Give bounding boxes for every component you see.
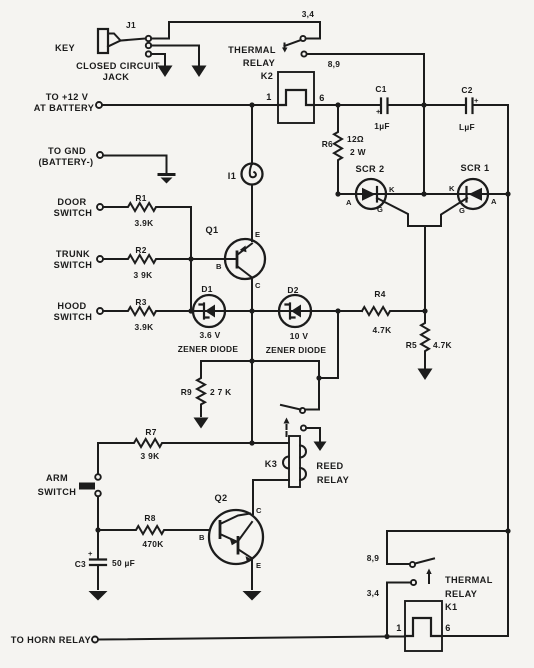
svg-text:+: + xyxy=(88,549,93,558)
wire arm switch top xyxy=(97,443,99,474)
svg-text:G: G xyxy=(459,206,465,215)
wire K1 8,9 contact to rail xyxy=(387,531,508,564)
svg-text:HOOD: HOOD xyxy=(57,301,86,311)
K1 contact 3,4 xyxy=(411,580,416,585)
capacitor C3 xyxy=(88,549,106,565)
svg-text:I1: I1 xyxy=(228,171,236,181)
svg-text:470K: 470K xyxy=(142,539,163,549)
connector J1 closed-circuit jack xyxy=(98,29,146,53)
node zener bottom line xyxy=(249,358,254,363)
svg-text:KEY: KEY xyxy=(55,43,75,53)
transistor Q1 xyxy=(225,239,265,279)
svg-text:3.9K: 3.9K xyxy=(135,322,154,332)
svg-text:10 V: 10 V xyxy=(290,331,309,341)
node K2 8,9 tap xyxy=(421,102,426,107)
svg-text:D2: D2 xyxy=(287,285,298,295)
ground xyxy=(89,591,108,601)
svg-text:Q1: Q1 xyxy=(205,225,218,235)
ground xyxy=(158,175,176,184)
wire K3 coil low side to Q2 collector xyxy=(253,480,289,514)
svg-text:K1: K1 xyxy=(445,602,458,612)
K3 actuator arrow dashed xyxy=(284,418,290,437)
ground xyxy=(158,66,173,78)
wire zener row line xyxy=(193,310,362,312)
resistor R5 xyxy=(421,311,429,369)
svg-text:6: 6 xyxy=(445,623,451,633)
svg-text:3,4: 3,4 xyxy=(367,588,380,598)
svg-text:RELAY: RELAY xyxy=(445,589,477,599)
svg-text:50 µF: 50 µF xyxy=(112,558,135,568)
svg-text:R4: R4 xyxy=(374,289,385,299)
wire to K3 reed contact xyxy=(306,378,320,410)
svg-text:3 9K: 3 9K xyxy=(141,451,160,461)
wire horn relay line xyxy=(98,636,508,640)
svg-text:SWITCH: SWITCH xyxy=(54,312,93,322)
wire arm switch to R8 node xyxy=(97,496,99,558)
K1 contact 8,9 xyxy=(410,562,415,567)
svg-text:RELAY: RELAY xyxy=(317,475,349,485)
svg-text:R6: R6 xyxy=(322,139,333,149)
svg-text:Q2: Q2 xyxy=(214,493,227,503)
relay K3 reed capsule xyxy=(283,436,306,487)
node SCR1 anode / rail xyxy=(505,191,510,196)
svg-text:E: E xyxy=(255,230,260,239)
wire K1 3,4 contact to horn line xyxy=(387,583,411,637)
K2 contact 3,4 xyxy=(300,36,305,41)
svg-text:8,9: 8,9 xyxy=(367,553,380,563)
svg-text:K: K xyxy=(449,184,455,193)
node SCR2 anode / R6 xyxy=(335,191,340,196)
svg-text:TO HORN RELAY: TO HORN RELAY xyxy=(11,635,91,645)
resistor R4 xyxy=(362,307,425,315)
node R7 K3 coil xyxy=(249,440,254,445)
svg-text:SCR 2: SCR 2 xyxy=(355,164,384,174)
jack contact tip xyxy=(146,36,151,41)
svg-text:12Ω: 12Ω xyxy=(347,134,364,144)
resistor R3 xyxy=(103,307,193,315)
svg-text:4.7K: 4.7K xyxy=(433,340,452,350)
wire Q2 emitter to ground xyxy=(251,559,253,589)
transistor Q2 darlington xyxy=(209,510,263,564)
svg-text:K: K xyxy=(389,185,395,194)
svg-text:3.9K: 3.9K xyxy=(135,218,154,228)
svg-text:J1: J1 xyxy=(126,20,136,30)
svg-text:R3: R3 xyxy=(135,297,146,307)
svg-text:2 7 K: 2 7 K xyxy=(210,387,232,397)
node bus R2 xyxy=(188,256,193,261)
ground xyxy=(194,418,209,429)
svg-text:R5: R5 xyxy=(406,340,417,350)
K1 actuator arrow xyxy=(426,569,431,584)
terminal DOOR SWITCH xyxy=(97,204,103,210)
svg-text:R9: R9 xyxy=(181,387,192,397)
svg-text:JACK: JACK xyxy=(103,72,130,82)
wire gate branch down-left xyxy=(319,311,338,378)
K2 actuator arrow xyxy=(282,44,288,53)
svg-text:(BATTERY-): (BATTERY-) xyxy=(38,157,93,167)
resistor R2 xyxy=(103,255,237,263)
K1 blade xyxy=(415,559,434,564)
svg-text:C2: C2 xyxy=(461,85,472,95)
svg-text:R1: R1 xyxy=(135,193,146,203)
svg-text:TO +12 V: TO +12 V xyxy=(46,92,89,102)
svg-text:CLOSED CIRCUIT: CLOSED CIRCUIT xyxy=(76,61,160,71)
svg-text:E: E xyxy=(256,561,261,570)
svg-text:THERMAL: THERMAL xyxy=(228,45,276,55)
wire jack tip to K2 contact 3,4 xyxy=(151,22,320,39)
svg-text:C1: C1 xyxy=(375,84,386,94)
wire +12V rail left xyxy=(102,104,278,106)
svg-text:RELAY: RELAY xyxy=(243,58,275,68)
K2 blade xyxy=(285,40,301,46)
node R8 C3 xyxy=(95,527,100,532)
svg-text:K2: K2 xyxy=(261,71,274,81)
svg-text:ZENER DIODE: ZENER DIODE xyxy=(178,344,239,354)
wire collector branch down xyxy=(251,311,253,443)
wire SCR anode-cathode line xyxy=(338,193,508,195)
svg-text:A: A xyxy=(491,197,497,206)
svg-text:+: + xyxy=(376,107,381,116)
svg-text:G: G xyxy=(377,205,383,214)
node rail tap xyxy=(505,528,510,533)
SCR thyristor SCR1 xyxy=(458,179,488,209)
svg-text:C3: C3 xyxy=(75,559,86,569)
svg-text:REED: REED xyxy=(316,461,343,471)
wire Q1 collector down xyxy=(251,278,253,312)
svg-text:1µF: 1µF xyxy=(374,121,390,131)
svg-text:ZENER DIODE: ZENER DIODE xyxy=(266,345,327,355)
relay K1 heater box xyxy=(405,601,442,651)
node bus R3 xyxy=(188,308,193,313)
ground xyxy=(418,369,433,381)
jack contact sleeve xyxy=(146,51,151,56)
svg-text:C: C xyxy=(255,281,261,290)
wire +12V rail mid xyxy=(314,105,508,636)
node K3 contact branch xyxy=(316,375,321,380)
capacitor C1 xyxy=(376,99,388,117)
wire C3 to ground xyxy=(97,566,99,590)
node K1 3,4 tap xyxy=(384,634,389,639)
node SCR cathodes xyxy=(421,191,426,196)
svg-text:K3: K3 xyxy=(265,459,278,469)
wire zener bottom line xyxy=(201,361,319,378)
svg-text:R2: R2 xyxy=(135,245,146,255)
resistor R8 xyxy=(98,526,209,534)
node Q1 collector xyxy=(249,308,254,313)
svg-text:1: 1 xyxy=(266,92,272,102)
node R4 R5 gate xyxy=(422,308,427,313)
K2 contact 8,9 xyxy=(301,51,306,56)
svg-text:3 9K: 3 9K xyxy=(134,270,153,280)
svg-text:+: + xyxy=(474,96,479,105)
node I1 tap xyxy=(249,102,254,107)
svg-text:B: B xyxy=(199,533,205,542)
svg-text:C: C xyxy=(256,506,262,515)
svg-text:2 W: 2 W xyxy=(350,147,366,157)
svg-text:SCR 1: SCR 1 xyxy=(460,163,489,173)
svg-text:SWITCH: SWITCH xyxy=(38,487,77,497)
resistor R9 xyxy=(197,361,205,416)
terminal TO GND xyxy=(97,152,103,158)
ground xyxy=(314,442,327,452)
wire TO GND to ground xyxy=(103,156,167,174)
svg-text:SWITCH: SWITCH xyxy=(54,260,93,270)
resistor R6 xyxy=(334,105,342,194)
terminal TO HORN RELAY xyxy=(92,637,98,643)
svg-text:TO GND: TO GND xyxy=(48,146,86,156)
svg-text:DOOR: DOOR xyxy=(57,197,86,207)
svg-text:3.6 V: 3.6 V xyxy=(199,330,220,340)
jack contact mid xyxy=(146,43,151,48)
wire K2 8,9 contact to rail xyxy=(307,54,424,194)
zener diode D2 xyxy=(279,295,311,327)
terminal TRUNK SWITCH xyxy=(97,256,103,262)
zener diode D1 xyxy=(193,295,225,327)
svg-text:A: A xyxy=(346,198,352,207)
svg-text:6: 6 xyxy=(319,93,325,103)
lamp I1 xyxy=(242,105,263,241)
svg-text:8,9: 8,9 xyxy=(328,59,341,69)
K3 reed contact top xyxy=(300,408,305,413)
wire K3 contact to ground xyxy=(306,428,320,441)
resistor R7 xyxy=(98,439,289,447)
node R6 tap xyxy=(335,102,340,107)
svg-text:AT BATTERY: AT BATTERY xyxy=(34,103,94,113)
wire jack mid to ground xyxy=(151,46,199,67)
ground xyxy=(192,66,207,78)
ground xyxy=(243,591,262,601)
svg-text:B: B xyxy=(216,262,222,271)
SCR Q2 thyristor SCR2 xyxy=(356,179,386,209)
terminal HOOD SWITCH xyxy=(97,308,103,314)
resistor R1 xyxy=(103,203,191,211)
svg-text:LµF: LµF xyxy=(459,122,475,132)
svg-text:THERMAL: THERMAL xyxy=(445,575,493,585)
capacitor C2 xyxy=(466,96,479,113)
node R6 branch xyxy=(335,308,340,313)
svg-text:D1: D1 xyxy=(201,284,212,294)
svg-text:3,4: 3,4 xyxy=(302,9,315,19)
wire SCR gates junction xyxy=(377,198,467,311)
svg-text:TRUNK: TRUNK xyxy=(56,249,90,259)
wire jack sleeve to ground xyxy=(151,54,165,66)
svg-text:4.7K: 4.7K xyxy=(373,325,392,335)
relay K2 heater element xyxy=(278,90,314,105)
terminal TO +12V xyxy=(96,102,102,108)
wire switch bus xyxy=(190,207,192,311)
svg-text:R8: R8 xyxy=(144,513,155,523)
svg-text:SWITCH: SWITCH xyxy=(54,208,93,218)
switch ARM pushbutton xyxy=(79,474,101,496)
relay K2 heater box xyxy=(278,72,314,123)
svg-text:1: 1 xyxy=(396,623,402,633)
svg-text:ARM: ARM xyxy=(46,473,68,483)
K3 reed blade xyxy=(281,405,301,410)
K3 reed contact bottom xyxy=(301,425,306,430)
relay K1 heater element xyxy=(405,618,442,636)
svg-text:R7: R7 xyxy=(145,427,156,437)
